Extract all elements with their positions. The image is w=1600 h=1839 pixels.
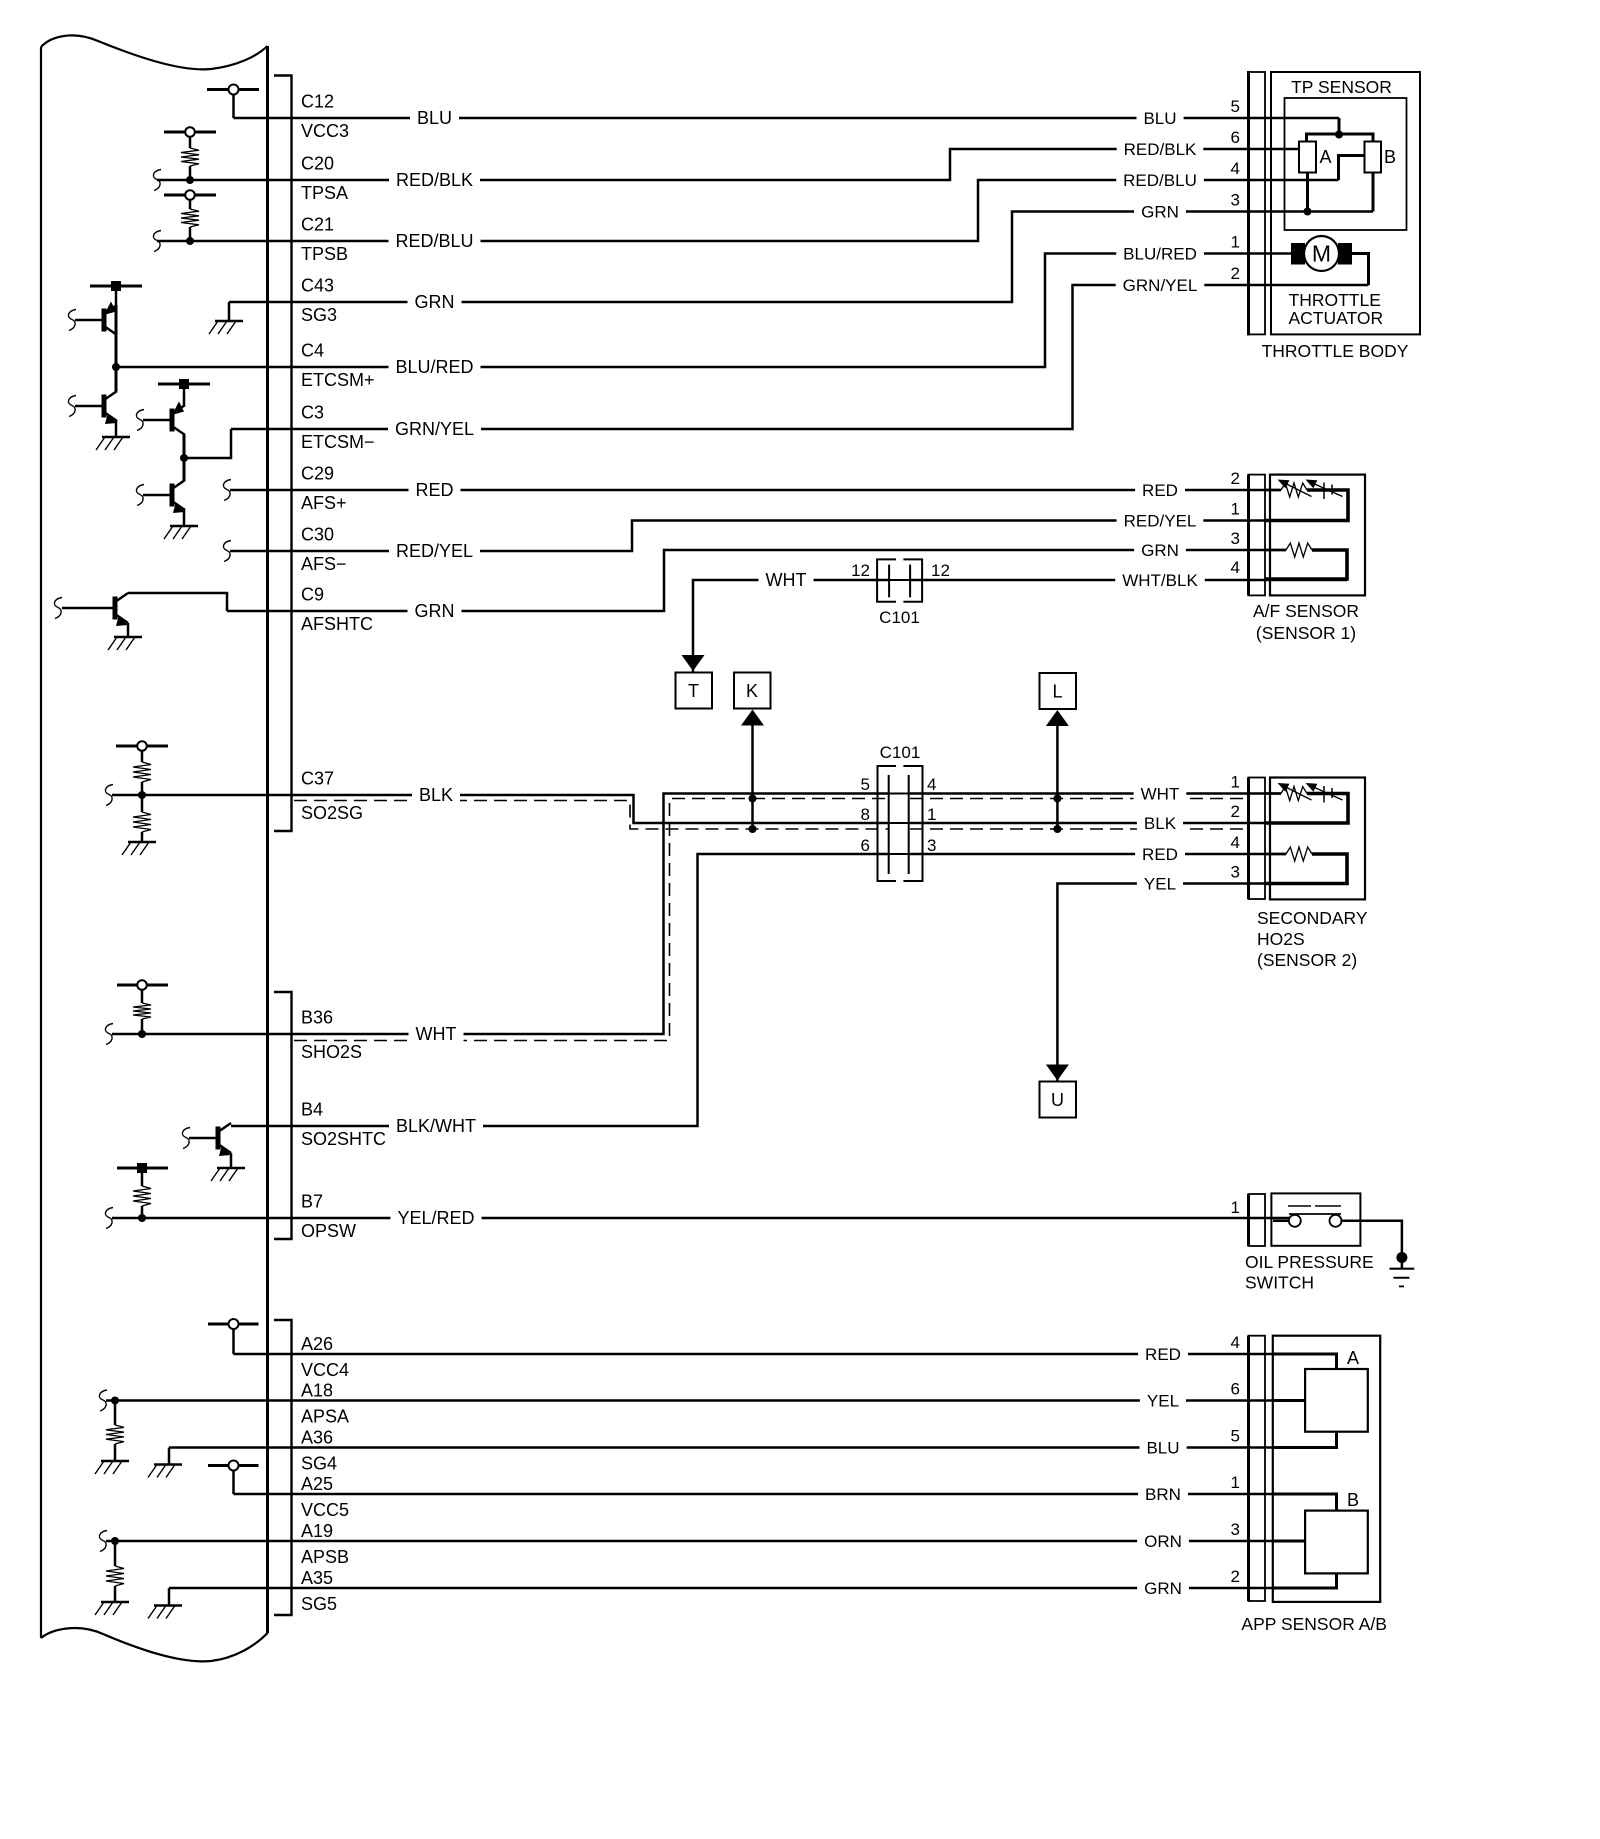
svg-text:A/F SENSOR: A/F SENSOR bbox=[1253, 601, 1359, 621]
svg-text:RED/BLK: RED/BLK bbox=[1124, 140, 1197, 159]
wire APP pin 2 to sensor B bottom bbox=[1273, 1573, 1337, 1588]
A/F sensor connector bracket bbox=[1249, 475, 1266, 596]
ECM block bottom torn edge bbox=[41, 1628, 268, 1661]
junction dot C3 node bbox=[180, 454, 188, 462]
wire A35 SG5 GRN to APP sensor bbox=[169, 1587, 1273, 1590]
wire hook C20 bbox=[153, 170, 161, 191]
wire color label YEL/RED (left) bbox=[391, 1207, 482, 1225]
svg-text:C3: C3 bbox=[301, 403, 324, 423]
junction dot C37 bbox=[138, 791, 146, 799]
wire color label RED/BLU (right) bbox=[1116, 170, 1204, 187]
junction dot C21 bbox=[186, 237, 194, 245]
svg-text:1: 1 bbox=[1231, 1198, 1240, 1217]
svg-text:C30: C30 bbox=[301, 525, 334, 545]
svg-text:BLK: BLK bbox=[419, 785, 453, 805]
svg-text:2: 2 bbox=[1231, 802, 1240, 821]
wire C12 VCC3 BLU to TP sensor pin 5 bbox=[234, 117, 1340, 120]
wire color label YEL (APP) bbox=[1140, 1390, 1186, 1407]
wire B7 OPSW YEL/RED to oil pressure switch pin 1 bbox=[112, 1217, 1295, 1220]
svg-text:(SENSOR 2): (SENSOR 2) bbox=[1257, 950, 1357, 970]
junction dot B36 bbox=[138, 1030, 146, 1038]
wire WHT from connector T to C101 pin 12 bbox=[693, 580, 889, 672]
wire color label GRN (left C9) bbox=[408, 600, 462, 618]
svg-text:3: 3 bbox=[927, 836, 936, 855]
wire Q1 to C4 node bbox=[115, 305, 118, 367]
resistor pull-down A18 bbox=[106, 1401, 124, 1462]
svg-text:2: 2 bbox=[1231, 469, 1240, 488]
junction dot A18 bbox=[111, 1397, 119, 1405]
svg-text:BRN: BRN bbox=[1145, 1485, 1181, 1504]
oil pressure switch connector bracket bbox=[1249, 1194, 1266, 1246]
wire color label BLU/RED (right) bbox=[1116, 243, 1204, 260]
wire A18 APSA YEL to APP sensor bbox=[106, 1399, 1273, 1402]
wire WHT from C101 pin 4 to HO2S pin 1 bbox=[910, 792, 1281, 795]
wire color label BLK (left) bbox=[412, 784, 460, 802]
junction dot K on WHT shield bbox=[749, 795, 757, 803]
wire Q6 emitter to ground bbox=[230, 1153, 233, 1168]
resistor pull-up B7 bbox=[133, 1186, 151, 1218]
svg-text:C101: C101 bbox=[879, 608, 920, 627]
junction dot C20 bbox=[186, 176, 194, 184]
svg-text:C9: C9 bbox=[301, 585, 324, 605]
connector C101 (row 12) shell bbox=[877, 559, 922, 601]
svg-text:WHT: WHT bbox=[416, 1024, 457, 1044]
svg-text:RED: RED bbox=[1145, 1345, 1181, 1364]
svg-text:2: 2 bbox=[1231, 264, 1240, 283]
svg-text:TPSB: TPSB bbox=[301, 244, 348, 264]
wire APP pin 4 to sensor A bbox=[1273, 1354, 1337, 1369]
resistor pull-up C37 bbox=[133, 762, 151, 795]
wire C43 SG3 GRN to TP sensor pin 3 bbox=[229, 212, 1373, 303]
ECM connector bracket B-group bbox=[274, 992, 292, 1239]
svg-text:U: U bbox=[1051, 1090, 1064, 1110]
svg-text:RED/BLU: RED/BLU bbox=[1123, 171, 1197, 190]
svg-text:2: 2 bbox=[1231, 1567, 1240, 1586]
resistor pull-up C20 bbox=[181, 148, 199, 180]
ECM block top torn edge bbox=[41, 35, 268, 69]
svg-text:BLU/RED: BLU/RED bbox=[1123, 244, 1197, 263]
svg-text:BLU: BLU bbox=[1146, 1438, 1179, 1457]
arrow into K bbox=[741, 710, 764, 830]
svg-text:4: 4 bbox=[1231, 833, 1240, 852]
wire B36 SHO2S WHT to C101 pin 5 bbox=[112, 794, 889, 1035]
wire C4 ETCSM+ BLU/RED to throttle actuator pin 1 bbox=[116, 254, 1291, 368]
earth ground (oil pressure switch) bbox=[1390, 1269, 1415, 1287]
svg-text:C101: C101 bbox=[880, 743, 921, 762]
wire hook Q4 base bbox=[136, 485, 144, 506]
wire C21 TPSB RED/BLU to TP sensor pin 4 bbox=[157, 180, 1339, 241]
svg-text:BLU: BLU bbox=[417, 108, 452, 128]
wire BLK from C101 pin 1 to HO2S pin 2 bbox=[910, 822, 1281, 825]
wire color label BLU (APP) bbox=[1140, 1437, 1187, 1454]
APP sensor box bbox=[1273, 1336, 1380, 1602]
svg-text:L: L bbox=[1052, 682, 1062, 702]
wire color label GRN (left) bbox=[408, 291, 462, 309]
wire color label WHT (left) bbox=[409, 1023, 464, 1041]
ground below Q2 bbox=[102, 436, 130, 439]
svg-text:RED/YEL: RED/YEL bbox=[1124, 511, 1197, 530]
wire color label RED/YEL (left) bbox=[389, 540, 480, 558]
arrow into T bbox=[682, 655, 705, 671]
svg-text:A19: A19 bbox=[301, 1521, 333, 1541]
svg-text:B36: B36 bbox=[301, 1008, 333, 1028]
svg-text:A36: A36 bbox=[301, 1428, 333, 1448]
power symbol VCC5 (A25) bbox=[208, 1461, 259, 1495]
wire color label ORN (APP) bbox=[1137, 1531, 1189, 1548]
junction dot B7 bbox=[138, 1214, 146, 1222]
sensor element A (APP) bbox=[1305, 1348, 1368, 1432]
svg-text:A35: A35 bbox=[301, 1568, 333, 1588]
svg-text:BLK: BLK bbox=[1144, 814, 1177, 833]
svg-text:AFSHTC: AFSHTC bbox=[301, 614, 373, 634]
svg-text:ETCSM−: ETCSM− bbox=[301, 432, 375, 452]
svg-text:5: 5 bbox=[861, 775, 870, 794]
sensor element B (APP) bbox=[1305, 1490, 1368, 1573]
pull-up power bar B36 bbox=[117, 980, 168, 1003]
A/F sensor box bbox=[1270, 475, 1365, 596]
ground SG4 bbox=[148, 1448, 182, 1478]
transistor Q1 bbox=[102, 309, 107, 332]
svg-text:HO2S: HO2S bbox=[1257, 929, 1305, 949]
svg-text:WHT: WHT bbox=[1141, 784, 1180, 803]
svg-text:6: 6 bbox=[1231, 128, 1240, 147]
wire TP pin 4 wiper jog bbox=[1339, 156, 1365, 181]
junction dot L on WHT shield bbox=[1053, 795, 1061, 803]
connector box T bbox=[676, 673, 713, 709]
node TP sensor pin 5 feed bbox=[1307, 118, 1374, 142]
svg-text:SG4: SG4 bbox=[301, 1454, 337, 1474]
ground below C37 divider bbox=[128, 841, 156, 844]
svg-text:SHO2S: SHO2S bbox=[301, 1042, 362, 1062]
svg-text:GRN: GRN bbox=[1141, 541, 1179, 560]
wire hook Q5 base bbox=[54, 598, 87, 619]
wire color label BLK/WHT (left) bbox=[389, 1115, 483, 1133]
wire hook C37 bbox=[105, 785, 113, 806]
wire color label BLU (left) bbox=[410, 107, 459, 125]
throttle motor M bbox=[1291, 236, 1352, 271]
wire hook C30 bbox=[223, 541, 231, 562]
svg-text:RED: RED bbox=[415, 480, 453, 500]
svg-text:APSB: APSB bbox=[301, 1547, 349, 1567]
ECM connector bracket A-group bbox=[274, 1320, 292, 1615]
svg-text:C37: C37 bbox=[301, 769, 334, 789]
wire color label WHT (right) bbox=[1134, 783, 1187, 800]
wire APP pin 1 to sensor B bbox=[1273, 1494, 1337, 1511]
wire link inside C101 row 12 bbox=[889, 579, 910, 581]
wire A25 VCC5 BRN to APP sensor bbox=[234, 1493, 1274, 1496]
connector box K bbox=[734, 673, 771, 709]
resistor pull-down A19 bbox=[106, 1541, 124, 1602]
ground below A18 resistor bbox=[101, 1460, 129, 1463]
wire hook Q6 base bbox=[182, 1128, 190, 1149]
supply bar with square (C4 chain) bbox=[90, 281, 142, 305]
oil pressure switch contacts bbox=[1273, 1206, 1360, 1227]
svg-text:C4: C4 bbox=[301, 341, 324, 361]
svg-text:VCC3: VCC3 bbox=[301, 121, 349, 141]
svg-text:VCC4: VCC4 bbox=[301, 1360, 349, 1380]
svg-text:12: 12 bbox=[851, 561, 870, 580]
TP sensor inner box bbox=[1285, 98, 1407, 230]
wire color label RED/BLK (left) bbox=[389, 169, 480, 187]
svg-text:BLK/WHT: BLK/WHT bbox=[396, 1116, 476, 1136]
svg-text:SG3: SG3 bbox=[301, 305, 337, 325]
svg-text:TP SENSOR: TP SENSOR bbox=[1291, 77, 1392, 97]
svg-text:T: T bbox=[688, 681, 699, 701]
ECM connector bracket C-group bbox=[274, 76, 292, 832]
svg-text:4: 4 bbox=[927, 775, 936, 794]
svg-text:A18: A18 bbox=[301, 1381, 333, 1401]
transistor Q2 bbox=[102, 395, 107, 418]
ground below Q4 bbox=[170, 525, 198, 528]
shield dash BLK right of C101 bbox=[910, 828, 1245, 830]
transistor Q4 bbox=[170, 484, 175, 507]
wire Q5 emitter to ground bbox=[127, 623, 130, 637]
svg-text:ORN: ORN bbox=[1144, 1532, 1182, 1551]
svg-text:GRN: GRN bbox=[1141, 202, 1179, 221]
svg-text:B7: B7 bbox=[301, 1192, 323, 1212]
svg-text:YEL: YEL bbox=[1144, 874, 1176, 893]
wire C29 AFS+ RED to A/F sensor pin 2 bbox=[230, 489, 1281, 492]
svg-text:SO2SG: SO2SG bbox=[301, 803, 363, 823]
svg-text:1: 1 bbox=[1231, 1473, 1240, 1492]
A/F heater element bbox=[1265, 549, 1286, 552]
wire Q5 collector to pin C9 bbox=[128, 593, 227, 611]
wire WHT/BLK from C101 pin 12 to A/F sensor pin 4 bbox=[910, 579, 1347, 582]
ECM block right edge bbox=[266, 46, 269, 1633]
svg-text:M: M bbox=[1312, 241, 1331, 267]
junction dot C4 node bbox=[112, 363, 120, 371]
svg-text:12: 12 bbox=[931, 561, 950, 580]
svg-text:C12: C12 bbox=[301, 92, 334, 112]
A/F sensing cell bbox=[1265, 489, 1281, 492]
junction dot A19 bbox=[111, 1537, 119, 1545]
wire oil pressure switch to ground bbox=[1360, 1221, 1402, 1269]
svg-text:GRN/YEL: GRN/YEL bbox=[1123, 276, 1198, 295]
wire YEL from HO2S pin 3 to connector U bbox=[1057, 884, 1347, 1082]
HO2S sensing cell bbox=[1265, 792, 1281, 795]
svg-text:5: 5 bbox=[1231, 97, 1240, 116]
ECM block left edge bbox=[40, 47, 42, 1638]
wire C37 SO2SG BLK to C101 pin 8 bbox=[112, 795, 889, 823]
svg-text:WHT: WHT bbox=[766, 570, 807, 590]
svg-text:4: 4 bbox=[1231, 159, 1240, 178]
power symbol VCC4 (A26) bbox=[208, 1319, 259, 1354]
svg-text:A: A bbox=[1320, 147, 1332, 167]
wire color label BLU/RED (left) bbox=[389, 356, 481, 374]
power symbol VCC3 (C12) bbox=[207, 85, 259, 119]
svg-text:OPSW: OPSW bbox=[301, 1221, 356, 1241]
ground below A19 resistor bbox=[101, 1601, 129, 1604]
wire color label BLK (right) bbox=[1137, 813, 1183, 830]
ground SG3 bbox=[209, 302, 243, 334]
svg-text:A25: A25 bbox=[301, 1474, 333, 1494]
svg-text:APP SENSOR A/B: APP SENSOR A/B bbox=[1241, 1614, 1387, 1634]
svg-text:B: B bbox=[1384, 147, 1396, 167]
junction dot at switch ground bbox=[1396, 1252, 1407, 1263]
svg-text:C43: C43 bbox=[301, 276, 334, 296]
svg-text:A26: A26 bbox=[301, 1334, 333, 1354]
svg-text:3: 3 bbox=[1231, 1520, 1240, 1539]
wire C3 node to pin C3 bbox=[184, 429, 231, 458]
wire color label BRN (APP) bbox=[1138, 1484, 1188, 1501]
wire APP pin 5 to sensor A bottom bbox=[1273, 1432, 1337, 1448]
pull-up power bar C21 bbox=[164, 190, 216, 209]
svg-text:ETCSM+: ETCSM+ bbox=[301, 370, 375, 390]
wire RED from C101 pin 3 to HO2S pin 4 bbox=[910, 853, 1286, 856]
HO2S box bbox=[1270, 778, 1365, 900]
potentiometer A (TP sensor) bbox=[1299, 142, 1332, 173]
potentiometer B (TP sensor) bbox=[1365, 142, 1397, 173]
wire C4 node down to Q2 bbox=[115, 367, 118, 391]
wire color label GRN/YEL (right) bbox=[1116, 275, 1205, 292]
wire color label RED (APP) bbox=[1138, 1344, 1188, 1361]
wire color label GRN (APP) bbox=[1137, 1578, 1189, 1595]
svg-text:C20: C20 bbox=[301, 154, 334, 174]
svg-text:(SENSOR 1): (SENSOR 1) bbox=[1256, 623, 1356, 643]
pull-up power bar C20 bbox=[164, 127, 216, 148]
wire C9 AFSHTC GRN to A/F sensor pin 3 bbox=[227, 550, 1286, 611]
svg-text:GRN/YEL: GRN/YEL bbox=[395, 419, 474, 439]
wire hook B7 bbox=[105, 1208, 113, 1229]
transistor Q6 bbox=[216, 1127, 221, 1150]
svg-text:THROTTLE BODY: THROTTLE BODY bbox=[1262, 341, 1409, 361]
wire color label RED (right HO2S) bbox=[1135, 844, 1185, 861]
ground below Q5 bbox=[114, 636, 142, 639]
connector box U bbox=[1040, 1082, 1077, 1118]
wire color label RED/BLU (left) bbox=[389, 230, 481, 248]
throttle body connector bracket bbox=[1249, 71, 1266, 335]
svg-text:1: 1 bbox=[1231, 500, 1240, 519]
junction dot L on BLK shield bbox=[1053, 825, 1061, 833]
wire color label GRN (right) bbox=[1134, 201, 1186, 218]
wire hook Q2 base bbox=[68, 396, 76, 417]
arrow into U bbox=[1046, 1065, 1069, 1081]
svg-text:WHT/BLK: WHT/BLK bbox=[1122, 571, 1198, 590]
svg-text:YEL: YEL bbox=[1147, 1391, 1179, 1410]
svg-text:GRN: GRN bbox=[415, 292, 455, 312]
wire hook C29 bbox=[223, 480, 231, 501]
svg-text:TPSA: TPSA bbox=[301, 183, 348, 203]
throttle body box bbox=[1271, 72, 1420, 334]
svg-text:AFS+: AFS+ bbox=[301, 493, 347, 513]
wire color label WHT (mid) bbox=[759, 569, 814, 587]
wire APP pin 3 to sensor B wiper bbox=[1273, 1540, 1305, 1543]
svg-text:RED: RED bbox=[1142, 481, 1178, 500]
ground below Q6 bbox=[217, 1167, 245, 1170]
svg-text:OIL PRESSURE: OIL PRESSURE bbox=[1245, 1252, 1374, 1272]
svg-text:6: 6 bbox=[1231, 1380, 1240, 1399]
wire TP pin 3 inside bbox=[1304, 173, 1374, 216]
pull-up power bar C37 bbox=[116, 741, 168, 762]
wire C3 ETCSM- GRN/YEL to throttle actuator pin 2 bbox=[231, 285, 1369, 429]
connector box L bbox=[1040, 673, 1077, 709]
pull-up power bar B7 bbox=[117, 1163, 168, 1186]
shield dash of B36 wire bbox=[294, 799, 889, 1041]
svg-text:4: 4 bbox=[1231, 558, 1240, 577]
svg-text:AFS−: AFS− bbox=[301, 554, 347, 574]
svg-text:3: 3 bbox=[1231, 529, 1240, 548]
supply bar with square (C3 chain) bbox=[158, 379, 210, 405]
svg-text:1: 1 bbox=[927, 805, 936, 824]
wire hook A19 bbox=[99, 1531, 107, 1552]
ground SG5 bbox=[148, 1588, 182, 1619]
connector C101 (rows 5/8/6) shell bbox=[878, 766, 923, 881]
wire C30 AFS- RED/YEL to A/F sensor pin 1 bbox=[230, 521, 1348, 552]
svg-text:APSA: APSA bbox=[301, 1407, 349, 1427]
wire color label YEL (right) bbox=[1137, 873, 1183, 890]
wire Q4 emitter to ground bbox=[183, 510, 186, 526]
svg-text:A: A bbox=[1347, 1348, 1359, 1368]
wire color label BLU (right) bbox=[1137, 108, 1184, 125]
svg-text:VCC5: VCC5 bbox=[301, 1500, 349, 1520]
svg-text:BLU: BLU bbox=[1143, 109, 1176, 128]
svg-text:THROTTLE: THROTTLE bbox=[1289, 290, 1381, 310]
wire Q2 emitter to ground bbox=[115, 421, 118, 437]
wire hook C21 bbox=[153, 231, 161, 252]
svg-text:4: 4 bbox=[1231, 1333, 1240, 1352]
svg-text:K: K bbox=[746, 681, 758, 701]
wire color label RED (right AF) bbox=[1135, 480, 1185, 497]
wire color label GRN (right AF) bbox=[1134, 540, 1186, 557]
svg-text:3: 3 bbox=[1231, 191, 1240, 210]
svg-text:RED/YEL: RED/YEL bbox=[396, 541, 473, 561]
resistor pull-down C37 bbox=[133, 795, 151, 842]
wire color label RED/BLK (right) bbox=[1117, 139, 1204, 156]
shield dash WHT right of C101 bbox=[910, 798, 1245, 800]
svg-text:GRN: GRN bbox=[1144, 1579, 1182, 1598]
wire A36 SG4 BLU to APP sensor bbox=[169, 1446, 1273, 1449]
svg-text:5: 5 bbox=[1231, 1427, 1240, 1446]
HO2S heater element bbox=[1265, 853, 1286, 856]
oil pressure switch box bbox=[1271, 1193, 1360, 1245]
APP sensor connector bracket bbox=[1249, 1336, 1266, 1601]
svg-text:ACTUATOR: ACTUATOR bbox=[1289, 308, 1384, 328]
svg-text:SG5: SG5 bbox=[301, 1594, 337, 1614]
wire color label GRN/YEL (left) bbox=[388, 418, 481, 436]
wire color label WHT/BLK (right) bbox=[1115, 570, 1205, 587]
svg-text:RED: RED bbox=[1142, 845, 1178, 864]
HO2S connector bracket bbox=[1249, 778, 1266, 900]
svg-text:1: 1 bbox=[1231, 773, 1240, 792]
wire hook Q3 base bbox=[136, 410, 144, 431]
wire hook A18 bbox=[99, 1390, 107, 1411]
shield dash of C37 wire bbox=[294, 801, 889, 830]
arrow into L bbox=[1046, 710, 1069, 829]
svg-text:8: 8 bbox=[861, 805, 870, 824]
wire Q3 to C3 node bbox=[183, 435, 186, 458]
wire motor loop to pin 2 bbox=[1352, 254, 1369, 286]
wire A26 VCC4 RED to APP sensor bbox=[234, 1353, 1274, 1356]
resistor pull-up B36 bbox=[133, 1003, 151, 1034]
wire C3 node down to Q4 bbox=[183, 458, 186, 481]
svg-text:GRN: GRN bbox=[415, 601, 455, 621]
wire link inside C101 row 8-1 bbox=[889, 822, 910, 824]
wire hook B36 bbox=[105, 1024, 113, 1045]
svg-text:6: 6 bbox=[861, 836, 870, 855]
svg-text:3: 3 bbox=[1231, 863, 1240, 882]
wire B4 SO2SHTC BLK/WHT to C101 pin 6 bbox=[231, 854, 889, 1126]
wire A19 APSB ORN to APP sensor bbox=[106, 1540, 1273, 1543]
junction dot K on BLK shield bbox=[749, 825, 757, 833]
svg-text:C29: C29 bbox=[301, 464, 334, 484]
wire link inside C101 row 6-3 bbox=[889, 853, 910, 855]
wire color label RED/YEL (right) bbox=[1117, 510, 1204, 527]
svg-text:BLU/RED: BLU/RED bbox=[395, 357, 473, 377]
transistor Q3 bbox=[170, 409, 175, 432]
svg-text:RED/BLU: RED/BLU bbox=[395, 231, 473, 251]
wire link inside C101 row 5-4 bbox=[889, 793, 910, 795]
svg-text:SO2SHTC: SO2SHTC bbox=[301, 1129, 386, 1149]
